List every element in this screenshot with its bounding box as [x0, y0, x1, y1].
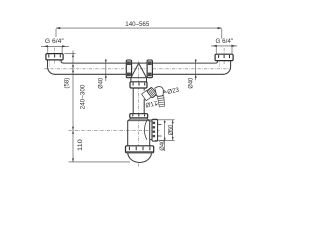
dishwasher elbow tip: [163, 91, 165, 93]
trap outlet socket arc: [144, 120, 147, 139]
svg-text:240–300: 240–300: [80, 84, 87, 109]
dim: 140-565 top: [56, 28, 222, 39]
right tailpiece inner wall shading: [220, 61, 229, 68]
right elbow: [216, 61, 231, 75]
wire: trap outlet centerline: [69, 129, 160, 131]
svg-text:Ø50: Ø50: [167, 124, 174, 135]
svg-text:110: 110: [77, 139, 84, 151]
dim: Ø40 left (pipe): [105, 59, 107, 81]
svg-text:G 6/4″: G 6/4″: [216, 38, 234, 45]
trap cup dome: [128, 153, 152, 163]
wire: main pipe centerline: [44, 68, 231, 70]
trap outlet nut: [152, 119, 158, 141]
tee cone body: [131, 63, 147, 82]
trap cup ring nut: [126, 146, 154, 153]
wire: trap vertical centerline: [138, 61, 140, 167]
trap body: [128, 121, 150, 146]
tee union nut left: [126, 60, 131, 78]
wire: right tailpiece centerline: [223, 48, 225, 65]
wire: left tailpiece centerline: [53, 48, 55, 65]
dim: left chain line: [65, 51, 131, 163]
pipe horizontal body: [55, 63, 224, 74]
dim: Ø40 right (pipe): [195, 59, 197, 80]
svg-text:(58): (58): [63, 78, 70, 89]
svg-text:Ø40: Ø40: [187, 77, 194, 88]
tee outlet flange nut: [130, 82, 147, 88]
dim: Ø23 dishwasher: [167, 87, 181, 96]
vertical drop pipe: [133, 88, 144, 114]
svg-text:G 6/4″: G 6/4″: [45, 38, 64, 45]
dim: Ø17 dishwasher: [145, 100, 159, 109]
dishwasher inlet tube: [142, 90, 152, 100]
dishwasher inlet nut: [147, 87, 157, 98]
trap body shoulder: [128, 118, 150, 121]
nut G6/4 left: [46, 54, 63, 60]
svg-text:Ø40: Ø40: [159, 139, 166, 150]
dishwasher corrugated hose: [157, 96, 165, 107]
svg-text:140–565: 140–565: [125, 21, 149, 28]
tee union nut right: [147, 60, 152, 78]
dim: Ø40 trap outlet stub: [164, 120, 166, 151]
left tailpiece inner wall shading: [49, 60, 59, 67]
trap inlet nut: [130, 114, 148, 118]
trap outlet stub: [150, 121, 162, 140]
dim: Ø50 trap outlet: [147, 120, 175, 141]
nut G6/4 right: [215, 54, 233, 60]
left elbow: [48, 60, 64, 74]
svg-text:Ø40: Ø40: [97, 77, 104, 88]
dishwasher elbow: [155, 87, 164, 97]
